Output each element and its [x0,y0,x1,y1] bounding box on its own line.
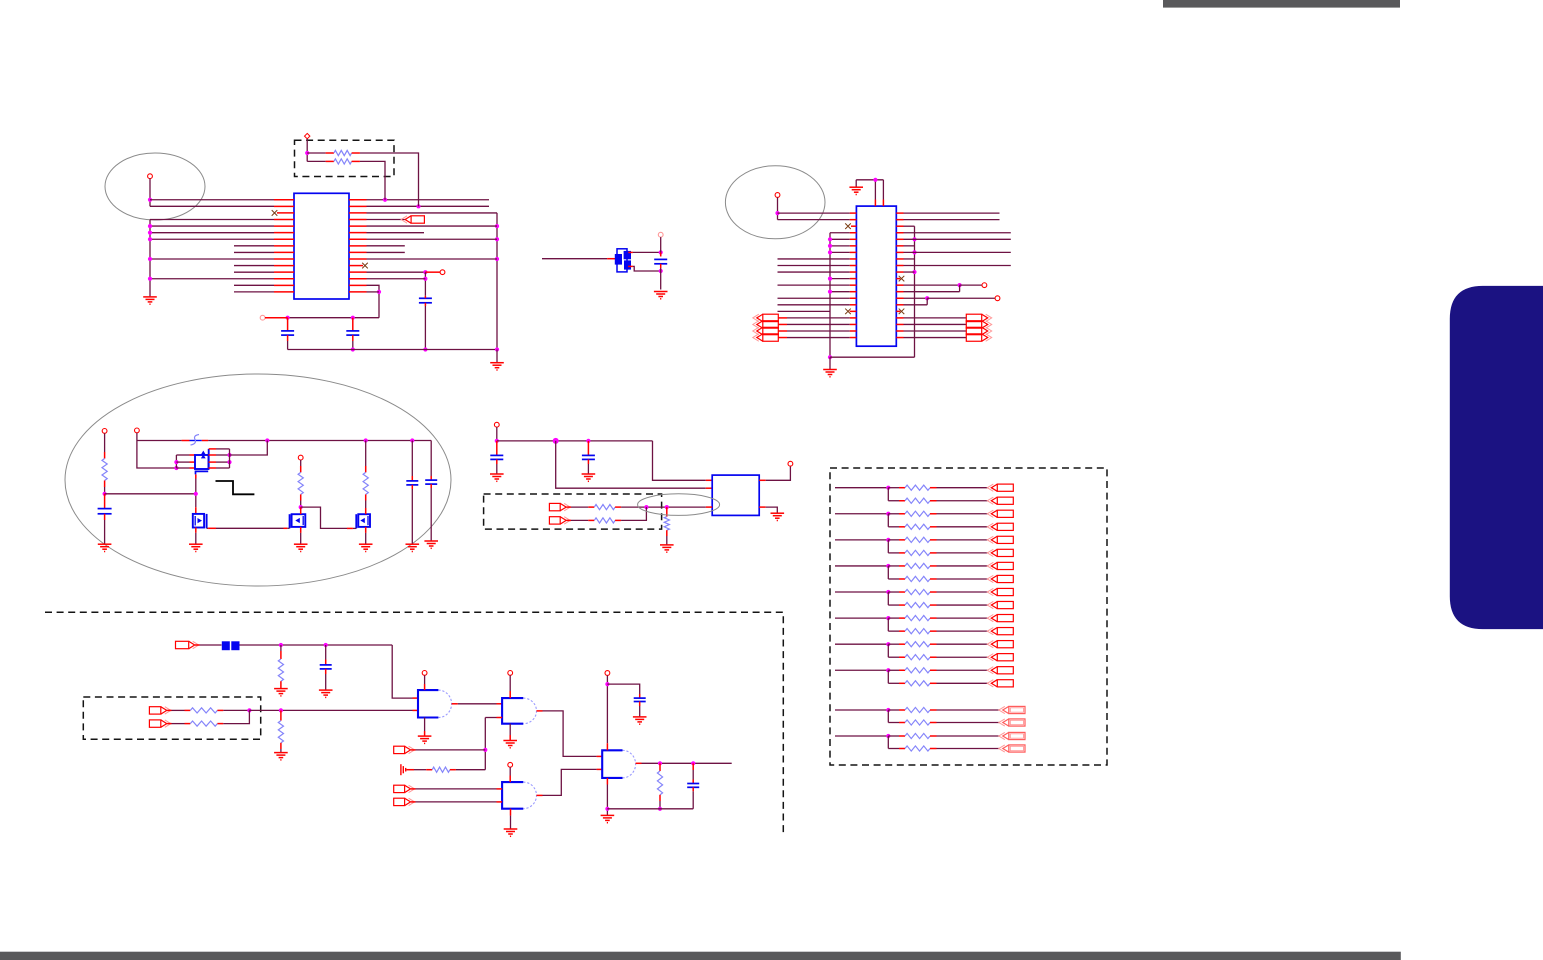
wire [888,748,899,750]
wire [150,232,274,234]
pin [509,776,511,783]
pin [195,507,197,514]
off-page connector [987,575,1013,582]
pin [411,801,416,803]
pin [185,723,191,725]
resistor [298,472,303,494]
junction [174,466,178,470]
wire [904,304,928,306]
wire [287,527,289,529]
junction [194,492,198,496]
ground [601,815,615,822]
wire [621,506,706,508]
pin [930,630,937,632]
pin [413,697,419,699]
pin [287,318,289,331]
off-page connector [987,615,1013,622]
off-page connector [987,654,1013,661]
wire [172,709,185,711]
capacitor [490,455,503,459]
wire [150,278,274,280]
wire [830,238,850,240]
pin [274,218,294,220]
resistor [905,498,930,503]
junction [658,807,662,811]
pin [896,265,903,267]
transistor Q2 [193,514,207,528]
wire [904,337,967,339]
junction [886,486,890,490]
AND gate U4A [418,690,438,717]
capacitor [425,480,437,484]
pin [930,539,937,541]
resistor [905,707,930,712]
pin [349,284,367,286]
wire [280,749,282,753]
wire [176,454,189,456]
ground [633,717,647,724]
pin [567,519,572,521]
wire [367,238,498,240]
pin [195,474,197,478]
pin [274,278,294,280]
pin [930,500,937,502]
wire [240,644,393,646]
wire [830,251,850,253]
pin [896,238,903,240]
wire [937,591,989,593]
terminal [135,428,140,433]
wire [288,349,497,351]
wire [937,735,1000,737]
IC U2 [856,206,896,346]
wire [904,291,960,293]
wire [510,816,512,829]
pin [930,735,937,737]
pin [497,801,503,803]
pin [274,291,294,293]
no-connect [362,263,368,269]
pin [896,337,903,339]
terminal [148,174,153,179]
wire [392,645,412,698]
pin [896,258,903,260]
wire [937,487,989,489]
dashed box [295,140,395,176]
off-page connector [753,321,779,328]
off-page connector inner [1010,720,1023,724]
wire [937,552,989,554]
wire [904,219,1000,221]
wire [904,317,967,319]
junction [148,224,152,228]
pin [899,630,905,632]
pin [167,723,171,725]
pin [850,251,857,253]
IC U3 [712,475,759,515]
wire [888,526,899,528]
pin [217,709,223,711]
capacitor [98,509,112,514]
wire [937,709,1000,711]
ground [401,764,406,775]
wire [937,669,989,671]
pin [930,526,937,528]
wire [904,297,928,299]
wire [411,489,413,544]
junction [886,734,890,738]
junction [364,438,368,442]
junction [828,237,832,241]
wire [888,669,899,671]
off-page connector [987,641,1013,648]
wire [458,703,497,705]
pin [899,513,905,515]
pin [325,669,327,674]
wire [607,684,639,694]
wire [301,507,347,528]
junction [873,178,877,182]
pin [899,669,905,671]
pin [896,225,903,227]
resistor [905,668,930,673]
capacitor [406,481,418,485]
pin [349,271,367,273]
pin [896,278,900,280]
pin [666,507,668,516]
wire [692,770,694,780]
wire [587,464,589,474]
pin [217,723,223,725]
wire [835,709,888,711]
pin [280,681,282,688]
wire [887,736,889,749]
resistor [905,550,930,555]
pin [899,539,905,541]
wire [888,578,899,580]
wire [888,709,899,711]
ground [504,829,518,836]
wire [352,341,354,350]
resistor [102,459,107,481]
pin [896,284,903,286]
pin [607,258,615,260]
pin [706,479,712,481]
pin [274,199,294,201]
no-connect [845,309,851,315]
junction [247,708,251,712]
capacitor [419,298,432,303]
junction [691,761,695,765]
junction [148,231,152,235]
pin [896,219,903,221]
off-page connector [999,719,1025,726]
wire [307,152,325,154]
pin [778,330,787,332]
wire [176,467,189,469]
pin [352,335,354,341]
pin [850,238,857,240]
pin [930,604,937,606]
ground [503,741,517,748]
pin [606,743,608,750]
wire [888,513,899,515]
junction [383,198,387,202]
wire [367,212,498,214]
AND gate U4C [502,782,523,809]
off-page connector [987,523,1013,530]
pin [850,219,857,221]
wire [777,197,779,219]
wire [660,268,662,290]
wire [778,212,850,214]
wire [172,723,185,725]
pin [899,682,905,684]
pin [365,508,367,514]
wire [207,527,209,529]
pin [850,317,857,319]
pin [190,454,196,456]
pin [430,476,432,480]
resistor [905,589,930,594]
wire [216,448,230,450]
wire [888,539,899,541]
resistor [657,771,662,795]
ground [98,544,112,551]
off-page connector inner [1010,746,1023,750]
bottom gray bar [0,952,1401,960]
junction [324,643,328,647]
off-page connector [999,706,1025,713]
terminal [422,671,427,676]
wire [888,552,899,554]
wire [904,258,915,260]
wire [830,278,850,280]
junction [828,250,832,254]
junction [658,761,662,765]
pin [850,323,857,325]
wire [543,769,597,795]
wire [888,656,899,658]
junction [886,668,890,672]
off-page connector [987,628,1013,635]
junction [912,270,916,274]
off-page connector [394,746,415,753]
wire [367,199,490,201]
pin [899,735,905,737]
pin [850,337,857,339]
pin [896,232,903,234]
pin [274,238,294,240]
pin [287,335,289,341]
pin [778,317,787,319]
wire [496,427,498,441]
junction [828,290,832,294]
off-page connector [149,707,170,714]
pin [850,284,857,286]
pin [209,461,217,463]
pin [850,258,857,260]
capacitor [582,455,595,459]
junction [227,453,231,457]
wire [830,245,850,247]
junction [148,257,152,261]
pin [411,749,416,751]
pin [899,722,905,724]
pin [349,265,363,267]
junction [886,616,890,620]
wire [456,769,485,771]
pin [411,788,416,790]
pin [930,709,937,711]
resistor [594,505,615,510]
pin [425,271,440,273]
transistor Q1 [195,449,209,475]
pin [452,703,458,705]
off-page connector [394,785,415,792]
pin [692,780,694,784]
pin [896,304,903,306]
wire [424,718,426,732]
resistor [905,681,930,686]
pin [413,709,419,711]
pin [899,709,905,711]
capacitor [654,259,667,263]
junction [416,204,420,208]
pin [274,251,294,253]
pin [349,199,367,201]
wire [606,785,608,816]
wire [835,669,888,671]
junction [423,347,427,351]
wire [367,205,490,207]
wire [216,527,284,529]
pin [659,763,661,771]
wire [542,258,607,260]
wire [216,454,230,456]
resistor [905,720,930,725]
pin [209,467,217,469]
wire [959,285,961,292]
wire [367,271,426,273]
pin [209,454,217,456]
wire [200,644,222,646]
terminal [298,455,303,460]
pin [325,660,327,665]
crystal [615,249,631,272]
junction [174,460,178,464]
pin [899,617,905,619]
wire [360,161,385,199]
wire [367,225,498,227]
pin [349,251,367,253]
wire [659,801,661,809]
wire [937,578,989,580]
wire [937,630,989,632]
pin [209,448,216,450]
pin [537,794,543,796]
junction [775,211,779,215]
wire [365,533,367,544]
wire [571,519,588,521]
pin [899,604,905,606]
off-page connector [966,327,991,334]
pin [666,530,668,536]
ground [274,753,288,760]
wire [666,536,668,545]
IC U1 [294,193,349,299]
terminal [982,283,987,288]
wire [150,258,274,260]
resistor [905,563,930,568]
wire [888,682,899,684]
wire [888,604,899,606]
no-connect [272,210,278,216]
capacitor [281,331,294,335]
wire [778,310,831,312]
wire [778,284,850,286]
resistor [905,511,930,516]
wire [766,507,778,513]
wire [414,769,426,771]
pin [850,291,857,293]
pin [265,317,288,319]
off-page connector [966,334,991,341]
pin [706,506,712,508]
wire [150,205,274,207]
wire [874,180,876,200]
junction [423,277,427,281]
pin [326,160,334,162]
pin [349,218,367,220]
pin [628,265,633,267]
terminal [788,461,793,466]
junction [553,438,559,444]
no-connect [899,276,905,282]
pin [930,487,937,489]
wire [150,238,274,240]
wire [249,709,412,711]
wire [904,323,967,325]
wire [365,501,367,509]
pin [896,297,903,299]
pin [537,710,543,712]
pin [349,245,367,247]
pin [778,323,787,325]
pin [104,452,106,459]
pin [300,507,302,514]
resistor [190,721,217,726]
off-page connector [999,745,1025,752]
pin [930,682,937,684]
pin [930,643,937,645]
pin [280,743,282,749]
ground [274,689,288,696]
pin [930,656,937,658]
ellipse highlight [638,494,720,516]
pin [899,565,905,567]
wire [280,645,282,651]
wire [639,706,641,717]
off-page connector [753,314,779,321]
wire [367,285,380,317]
junction [423,270,427,274]
junction [586,439,590,443]
wire [904,271,915,273]
junction [148,277,152,281]
wire [835,539,888,541]
wire [543,711,597,757]
